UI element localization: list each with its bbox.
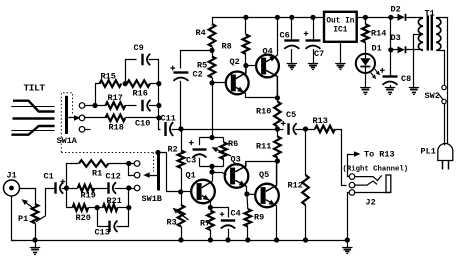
wire SW2 down — [444, 104, 446, 146]
potentiometer P1 — [32, 204, 39, 223]
svg-text:C1: C1 — [44, 172, 54, 182]
svg-text:R13: R13 — [313, 116, 328, 126]
capacitor C11 — [164, 122, 166, 136]
svg-text:SW2: SW2 — [425, 91, 440, 101]
wire C9 branch left — [126, 60, 137, 84]
transistor Q5 — [255, 184, 279, 208]
capacitor C4 — [221, 219, 235, 221]
capacitor C2 — [173, 71, 188, 73]
transistor Q2 — [226, 72, 249, 95]
ground D1 — [360, 87, 370, 89]
node R15/R16 junction — [123, 81, 128, 86]
Q4 emitter to rail — [277, 17, 279, 55]
node Q2/Q4/R10 — [275, 95, 280, 100]
switch SW1A wiper bar — [65, 96, 68, 134]
svg-text:C5: C5 — [286, 110, 296, 120]
plus C4 — [220, 212, 224, 216]
capacitor C12 — [107, 182, 109, 193]
node R7 rail — [208, 237, 213, 242]
svg-text:C13: C13 — [95, 228, 110, 238]
wire C12 to node — [115, 188, 129, 190]
wire R14 stems — [365, 17, 367, 24]
node A C3/R6 top — [209, 135, 214, 140]
wire R7 to rail — [210, 230, 212, 240]
wire R3 bottom — [181, 227, 183, 241]
wire C13 to bus — [117, 208, 129, 227]
Q2 emitter wire — [235, 87, 245, 93]
wire C3 bottom leg — [199, 158, 201, 167]
wire arrow to tip contact — [348, 155, 350, 177]
ground C8 — [385, 87, 395, 89]
resistor R2 — [178, 151, 185, 169]
svg-text:J2: J2 — [366, 198, 376, 208]
resistor R19 — [78, 185, 95, 192]
svg-text:C8: C8 — [401, 74, 411, 84]
switch SW2 blade — [438, 93, 443, 99]
Q2 emitter route — [246, 93, 278, 98]
resistor R14 — [362, 24, 369, 42]
node C11/C2 — [178, 126, 183, 131]
svg-text:C12: C12 — [106, 172, 121, 182]
node R8/Q2/Q4 — [243, 63, 248, 68]
capacitor C3 — [193, 148, 207, 150]
switch SW1B contact 1 — [134, 161, 140, 167]
wire C11 to node — [172, 129, 182, 131]
capacitor C6 — [284, 39, 299, 41]
resistor R5 — [209, 57, 216, 78]
wire R19 to C12 — [94, 188, 108, 190]
wire R6 legs — [223, 138, 225, 143]
connector J2 sleeve — [349, 190, 355, 196]
wire Q3 base — [213, 172, 223, 174]
tilt response symbol: treble-cut curve — [11, 106, 54, 108]
svg-text:R10: R10 — [256, 107, 271, 117]
wire node to SW1B contact3 — [129, 188, 135, 190]
node Q1 base — [178, 189, 183, 194]
wire right bus C12row to R21row — [128, 188, 130, 208]
svg-text:To R13: To R13 — [364, 150, 395, 160]
wire contact2 to R18 — [85, 117, 106, 119]
svg-text:D1: D1 — [372, 44, 382, 54]
svg-text:C4: C4 — [231, 209, 241, 219]
plug PL1 prongs — [442, 161, 444, 170]
capacitor C9 — [141, 54, 143, 65]
svg-text:R1: R1 — [92, 169, 102, 179]
svg-text:Out In: Out In — [326, 18, 354, 26]
wire C4 branch — [211, 208, 229, 218]
capacitor C13 — [108, 221, 110, 232]
D1 diode triangle — [360, 58, 370, 66]
ground main — [35, 240, 37, 248]
wire trunk down to node A — [212, 83, 214, 138]
resistor R4 — [209, 24, 216, 47]
switch SW1A contact 2 — [79, 115, 85, 121]
switch SW1B contact 3 — [134, 185, 140, 191]
wire R17 to C10 — [125, 105, 136, 107]
svg-text:R15: R15 — [101, 72, 116, 82]
top rail — [212, 17, 324, 19]
diode D2 — [398, 14, 405, 21]
switch SW1B contact 2 — [134, 172, 140, 178]
Q4 emitter wire — [266, 55, 278, 62]
svg-text:SW1B: SW1B — [142, 194, 162, 204]
svg-text:P1: P1 — [18, 214, 28, 224]
wire D3 to T1 — [405, 49, 423, 51]
svg-text:C9: C9 — [134, 43, 144, 53]
Q2 base wire — [212, 82, 226, 84]
wire R10 stems — [277, 98, 279, 102]
Q3 collector wire — [235, 161, 246, 172]
wire riser to R20 — [67, 189, 73, 208]
svg-text:Q3: Q3 — [231, 155, 241, 165]
trimmer R3 arrow — [177, 212, 188, 220]
dashed mechanical linkage to SW1B — [61, 152, 153, 154]
wire riser to R15 — [96, 84, 100, 106]
Q2 collector wire — [235, 66, 246, 79]
T1 secondary-right winding — [436, 18, 441, 50]
wire IC1 ground — [340, 42, 342, 63]
node C1/R19 — [64, 185, 69, 190]
wire J1 to P1 top — [20, 189, 36, 205]
Q5 collector wire — [266, 161, 277, 191]
wire bus to C11 — [159, 118, 161, 130]
node Q4 emitter rail — [275, 15, 280, 20]
svg-text:R20: R20 — [76, 213, 91, 223]
node R12 rail — [303, 237, 308, 242]
node Q5 rail — [274, 237, 279, 242]
resistor R1 — [79, 160, 109, 167]
svg-text:TILT: TILT — [24, 83, 46, 94]
resistor R8 — [243, 35, 250, 55]
wire C8 stem — [390, 50, 392, 77]
svg-text:C3: C3 — [186, 156, 196, 166]
node R16 right — [156, 81, 161, 86]
wire R11 stems — [277, 129, 279, 137]
svg-text:R5: R5 — [197, 61, 207, 71]
wire R5 to node — [212, 78, 214, 83]
svg-text:R7: R7 — [200, 219, 210, 229]
Q5 emitter to rail — [276, 206, 278, 240]
resistor R6 trimmer — [220, 142, 227, 159]
wire D1 to ground — [365, 73, 367, 88]
plus C3 — [189, 140, 194, 145]
plus C5 — [281, 121, 286, 126]
rail IC1 to D2 — [357, 17, 398, 19]
node R12 top — [303, 126, 308, 131]
wire C7 stem — [313, 17, 315, 41]
wire R12 stems — [305, 129, 307, 175]
node R1 output — [126, 161, 131, 166]
capacitor C7 — [306, 39, 321, 41]
node R11/Q3/Q5 — [275, 158, 280, 163]
wire node to SW1B contact2 — [129, 164, 135, 176]
svg-text:D2: D2 — [391, 5, 401, 15]
wire R20 to R21 — [88, 207, 103, 209]
J2 sleeve to body — [355, 192, 391, 194]
node D3/C8 — [388, 47, 393, 52]
dashed enclosure SW1A — [61, 93, 72, 153]
bottom rail — [12, 240, 348, 242]
node SW1B wiper — [155, 150, 160, 155]
node bus row2 — [156, 115, 161, 120]
plus C7 — [304, 31, 308, 35]
Q1 emitter down — [210, 201, 212, 208]
wire C9 to bus — [149, 60, 159, 84]
node C6 rail — [289, 15, 294, 20]
svg-text:C6: C6 — [280, 31, 290, 41]
resistor R11 — [274, 137, 281, 158]
wire D2 to T1 — [405, 17, 423, 19]
svg-text:D3: D3 — [391, 33, 401, 43]
node R21 right — [126, 205, 131, 210]
wire riser to R1 — [67, 164, 79, 189]
node R8 top — [243, 15, 248, 20]
svg-text:T1: T1 — [425, 9, 435, 19]
wire C13 branch — [98, 208, 110, 227]
svg-text:SW1A: SW1A — [57, 136, 78, 146]
svg-text:IC1: IC1 — [333, 26, 347, 34]
capacitor C5 — [287, 123, 289, 134]
wire R8 stems — [245, 17, 247, 34]
connector J2 ring — [349, 182, 355, 188]
wire node to Q3 collector — [246, 161, 278, 163]
wire C2 bottom — [180, 81, 182, 129]
wire C10 to bus — [149, 105, 159, 107]
node Q3 emitter / Q5 base — [244, 191, 249, 196]
switch SW1B wiper bar — [157, 154, 160, 191]
regulator IC1 — [324, 12, 357, 42]
transistor Q4 — [256, 55, 279, 78]
resistor R13 — [315, 126, 335, 133]
wire R2 top — [181, 129, 183, 151]
svg-text:R3: R3 — [167, 218, 177, 228]
wire C2 tap — [181, 51, 212, 69]
wire R2 bottom to base node — [181, 168, 183, 192]
wire Q5 base — [247, 193, 255, 196]
svg-text:C11: C11 — [161, 114, 176, 124]
plug PL1 body — [438, 144, 453, 161]
LED D1 — [356, 54, 375, 73]
svg-text:R21: R21 — [107, 196, 122, 206]
switch SW1A wiper arrow — [68, 117, 74, 119]
plus C2 — [170, 66, 175, 71]
svg-text:R6: R6 — [228, 139, 238, 149]
svg-text:R2: R2 — [168, 145, 178, 155]
node R15/R17 junction — [92, 103, 97, 108]
node P1 rail — [32, 237, 37, 242]
capacitor C10 — [141, 100, 143, 111]
node D2/D3 branch — [388, 15, 393, 20]
svg-text:J1: J1 — [7, 171, 17, 181]
svg-text:Q2: Q2 — [230, 57, 240, 67]
Q1 emitter wire — [202, 196, 211, 201]
T1 core — [427, 16, 429, 51]
svg-text:Q4: Q4 — [263, 47, 273, 57]
node R20/R21 — [95, 205, 100, 210]
resistor R20 — [73, 204, 89, 211]
T1 right winding bottom wire — [437, 51, 445, 86]
wire C5 to R13 — [295, 129, 315, 131]
long node wire to R10/R11 — [181, 129, 277, 131]
J2 tip switch contact — [355, 175, 382, 180]
transistor Q1 — [191, 180, 215, 204]
wire C down to Q1 collector — [212, 172, 214, 182]
wire R21 to bus — [117, 207, 128, 209]
wire R9 stems — [246, 194, 249, 209]
svg-text:C7: C7 — [314, 49, 324, 59]
T1 primary-left winding — [418, 18, 423, 50]
node R9 rail — [245, 237, 250, 242]
node R14 rail — [363, 15, 368, 20]
svg-text:R17: R17 — [108, 93, 123, 103]
wire SW1B wiper to Q1 base — [159, 153, 181, 192]
resistor R17 — [106, 102, 126, 109]
ground T1 CT — [409, 87, 419, 89]
wire C7 down — [313, 49, 315, 63]
node R10/R11/C5 — [275, 126, 280, 131]
node B — [209, 164, 214, 169]
resistor R18 — [106, 115, 126, 122]
svg-text:R4: R4 — [196, 28, 206, 38]
svg-text:R19: R19 — [81, 191, 96, 201]
node C4 rail — [225, 237, 230, 242]
wire contact1 to node — [85, 105, 106, 107]
D1 emission arrows — [371, 73, 374, 76]
wire bus — [158, 84, 160, 118]
wire node to C5 — [277, 129, 283, 131]
Q3 emitter wire — [235, 180, 247, 186]
capacitor C8 — [383, 75, 398, 77]
resistor R3 trimmer — [178, 205, 185, 227]
connector J2 tip — [349, 174, 355, 180]
wire C6 down — [291, 49, 293, 63]
wire J1 sleeve to ground rail — [12, 197, 16, 241]
trimmer R6 arrow — [217, 150, 231, 156]
wire rail corner to R4 — [212, 17, 214, 24]
switch SW2 contact bottom — [442, 99, 446, 103]
wire D3 branch — [390, 17, 392, 50]
J2 ring blade — [355, 181, 377, 185]
resistor R21 — [103, 204, 118, 211]
capacitor C1 — [54, 182, 56, 193]
ground IC1 — [335, 63, 345, 65]
Q1 collector wire — [202, 182, 212, 188]
svg-text:C2: C2 — [193, 70, 203, 80]
switch SW1A contact 1 — [79, 103, 85, 109]
resistor R10 — [274, 102, 281, 127]
wire C4 to rail — [228, 229, 230, 240]
resistor R15 — [100, 80, 122, 87]
svg-text:Q1: Q1 — [186, 171, 196, 181]
wire B to C — [212, 166, 214, 172]
node C12 row — [126, 185, 131, 190]
T1 centre tap — [414, 35, 422, 88]
resistor R9 — [245, 209, 252, 227]
plus C1 — [61, 179, 65, 183]
tilt response symbol: flat curve — [13, 117, 55, 119]
svg-text:R11: R11 — [256, 142, 271, 152]
J2 body — [386, 175, 391, 193]
node R3 rail — [178, 237, 183, 242]
switch SW1A contact 3 — [79, 127, 85, 133]
wire rectangle bottom — [200, 166, 224, 168]
resistor R16 — [127, 80, 150, 87]
wire D3 in — [391, 49, 398, 51]
svg-text:R12: R12 — [288, 181, 303, 191]
wire P1 to rail — [35, 223, 37, 240]
pot P1 wiper arrow — [26, 203, 34, 209]
arrow To R13 — [347, 154, 354, 156]
ground C6 — [287, 63, 297, 65]
ground C7 — [308, 63, 318, 65]
ground rail right — [347, 240, 349, 247]
svg-text:(Right Channel): (Right Channel) — [343, 166, 409, 174]
svg-text:R18: R18 — [109, 123, 124, 133]
wire C1 to node — [62, 188, 67, 190]
wire C6 stem — [291, 17, 293, 41]
wire C8 down — [390, 85, 392, 88]
wire Q4 base — [246, 65, 256, 67]
Q5 emitter wire — [266, 200, 277, 206]
transistor Q3 — [225, 164, 249, 188]
wire rectangle top — [200, 137, 224, 139]
Q3 emitter down — [246, 187, 248, 194]
switch SW2 contact top — [442, 85, 446, 89]
wire C3 top leg — [199, 138, 201, 146]
node R5/Q2 base — [209, 80, 214, 85]
plus C8 — [380, 68, 385, 73]
resistor R7 — [207, 211, 214, 231]
wire J2 sleeve to rail — [348, 193, 350, 241]
wire R3 top — [181, 192, 183, 205]
svg-text:R9: R9 — [254, 213, 264, 223]
svg-text:Q5: Q5 — [259, 170, 269, 180]
connector J1 — [4, 180, 20, 196]
node C Q3 base — [209, 169, 214, 174]
node C7 rail — [310, 15, 315, 20]
wire C1 left lead — [46, 189, 56, 216]
tilt response symbol: treble-boost curve — [11, 130, 54, 132]
svg-text:R16: R16 — [133, 89, 148, 99]
svg-text:R14: R14 — [371, 29, 386, 39]
T1 right winding top wire — [437, 18, 448, 145]
node J2 rail end — [345, 237, 350, 242]
wire R13 to J2 — [336, 130, 347, 186]
wire base node to Q1 — [181, 191, 192, 193]
wire R1 to contact — [108, 163, 134, 165]
wire R18 to bus — [125, 117, 159, 119]
svg-text:PL1: PL1 — [421, 147, 436, 157]
wire R16 to bus — [150, 83, 159, 85]
svg-text:R8: R8 — [222, 42, 232, 52]
node Q1 emitter — [208, 205, 213, 210]
diode D3 — [398, 46, 405, 53]
svg-text:C10: C10 — [135, 119, 150, 129]
node R4/R5 — [209, 48, 214, 53]
switch SW1B wiper arrow — [150, 175, 157, 177]
Q4 collector wire — [266, 70, 278, 98]
wire R4 R5 joins — [212, 47, 214, 57]
resistor R12 — [302, 175, 309, 205]
wire R19 in — [67, 188, 78, 190]
node bus row1 — [156, 103, 161, 108]
